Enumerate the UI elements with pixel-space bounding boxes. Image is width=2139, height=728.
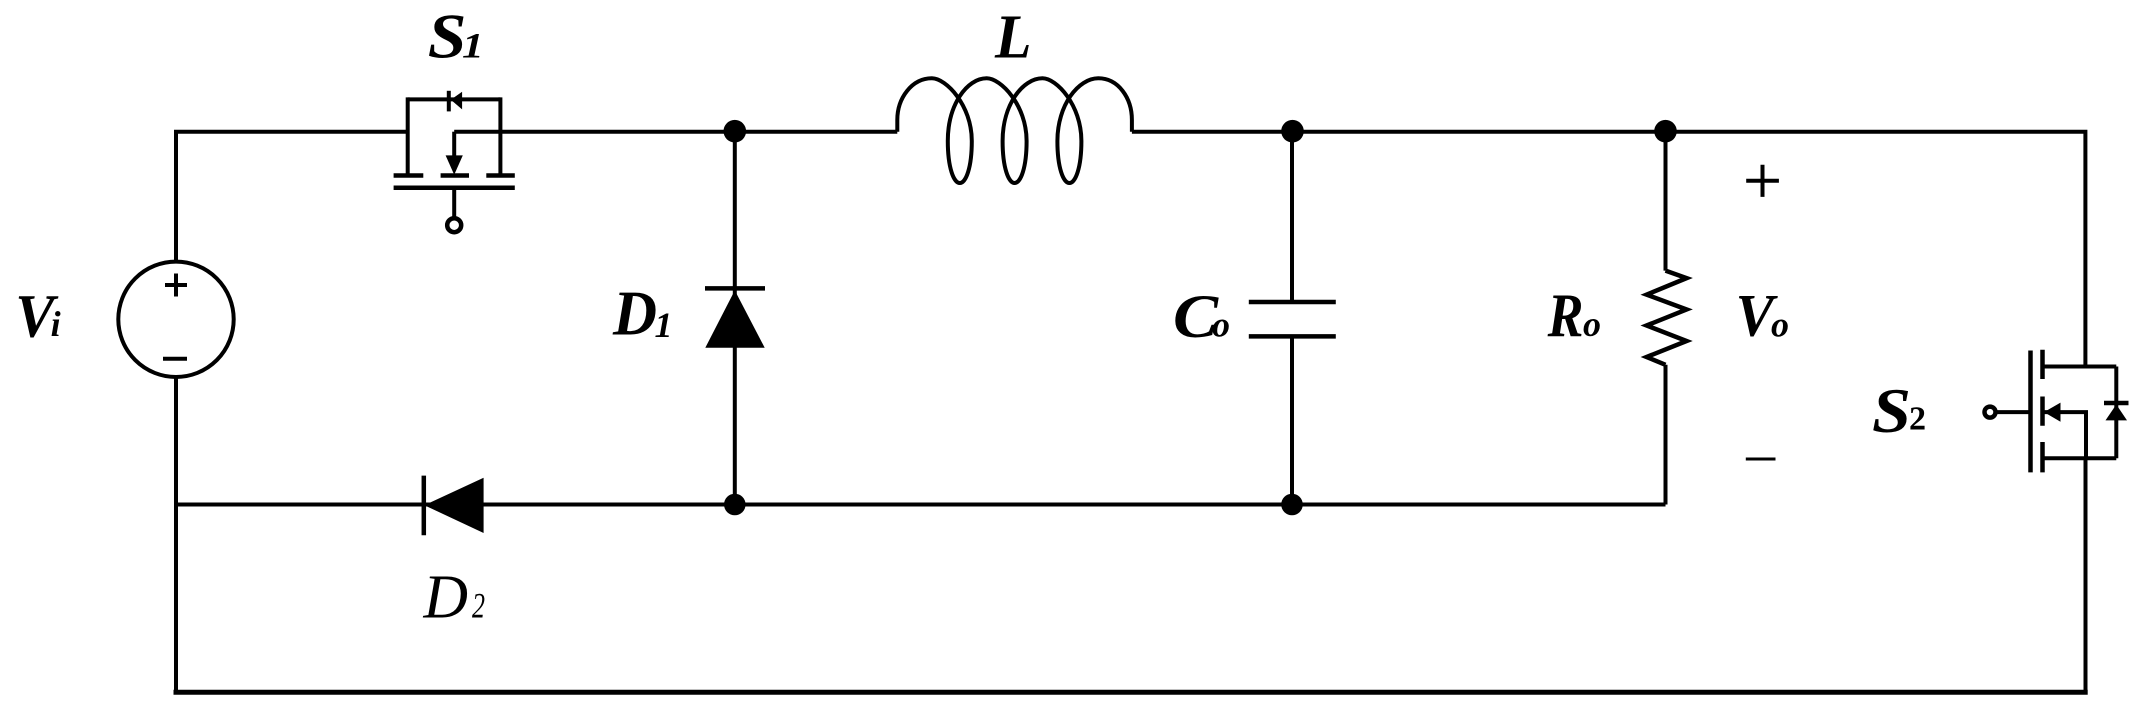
svg-text:2: 2	[1909, 401, 1926, 438]
svg-text:o: o	[1771, 304, 1789, 344]
svg-text:D: D	[612, 278, 657, 349]
svg-text:o: o	[1583, 304, 1601, 344]
svg-text:o: o	[1212, 305, 1230, 345]
svg-text:R: R	[1547, 282, 1584, 350]
svg-text:S: S	[428, 1, 467, 72]
svg-text:2: 2	[472, 586, 485, 626]
svg-text:L: L	[994, 3, 1031, 71]
svg-text:1: 1	[655, 305, 673, 345]
svg-text:i: i	[51, 304, 61, 344]
svg-text:D: D	[423, 564, 468, 632]
svg-text:S: S	[1872, 375, 1911, 446]
svg-text:1: 1	[462, 25, 484, 65]
